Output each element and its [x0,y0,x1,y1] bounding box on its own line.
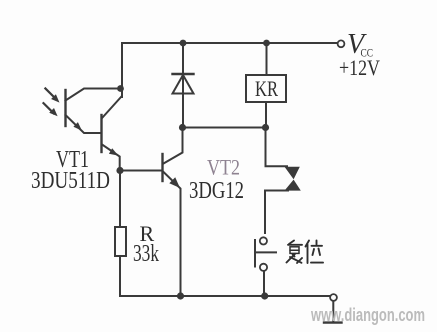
svg-text:3DU511D: 3DU511D [31,168,110,194]
svg-text:www.diangon.com: www.diangon.com [310,304,425,325]
svg-text:+12V: +12V [339,55,380,80]
svg-text:3DG12: 3DG12 [189,178,244,204]
svg-text:VT2: VT2 [207,155,240,180]
svg-text:KR: KR [255,76,278,101]
svg-text:33k: 33k [133,241,159,267]
